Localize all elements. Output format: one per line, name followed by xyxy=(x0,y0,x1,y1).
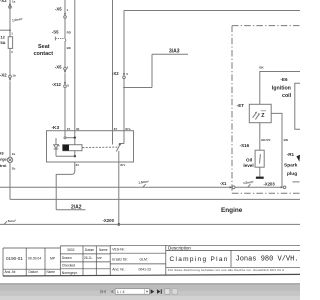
svg-text:Name: Name xyxy=(99,248,108,252)
svg-text:Drawn: Drawn xyxy=(62,256,72,260)
svg-text:2/A2: 2/A2 xyxy=(71,205,82,211)
svg-text:Normgepr.: Normgepr. xyxy=(62,271,78,275)
svg-text:-S16: -S16 xyxy=(240,143,250,148)
svg-text:-X2: -X2 xyxy=(0,73,7,78)
wire relay pin 87 feed from top xyxy=(112,0,114,145)
last page button xyxy=(157,289,162,294)
wire 87a net vertical upper xyxy=(123,11,125,74)
previous page button xyxy=(110,290,113,294)
first page button xyxy=(100,290,106,294)
svg-text:control: control xyxy=(0,163,6,168)
wire ET feed with corner to right edge xyxy=(260,72,300,105)
svg-text:MP: MP xyxy=(50,257,56,261)
dashed actuator link coil to contact xyxy=(83,146,118,149)
svg-text:contact: contact xyxy=(34,51,54,57)
svg-text:09.09.04: 09.09.04 xyxy=(28,257,41,261)
wire relay pin 30 feed from top xyxy=(74,0,76,138)
coil terminal circle pin15 xyxy=(64,137,66,139)
pin 2b xyxy=(12,166,16,170)
relay coil K3 xyxy=(63,145,82,151)
node junction to 3/A3 branch xyxy=(123,87,125,89)
wire connector to lamp xyxy=(9,81,11,157)
svg-text:-K3: -K3 xyxy=(52,125,60,130)
wire branch to left edge xyxy=(0,29,10,31)
wire lamp down to corner xyxy=(9,163,11,200)
svg-text:plug: plug xyxy=(287,171,297,177)
value label 1,5mm2 xyxy=(143,184,146,187)
connector -X1 xyxy=(220,181,227,186)
svg-text:-ET: -ET xyxy=(237,103,245,108)
svg-text:Seat: Seat xyxy=(38,44,50,50)
wire switch to connector xyxy=(64,41,66,67)
svg-text:Oil: Oil xyxy=(246,157,252,162)
oil level switch S16 xyxy=(240,143,250,148)
svg-text:0190-01: 0190-01 xyxy=(6,256,23,261)
svg-text:Jonas 980 V/VH.: Jonas 980 V/VH. xyxy=(236,255,299,263)
svg-text:-X5: -X5 xyxy=(55,64,62,69)
svg-text:31: 31 xyxy=(76,163,80,167)
svg-text:coil: coil xyxy=(282,93,292,99)
connector -X203 xyxy=(264,181,276,186)
junction xyxy=(9,29,11,31)
svg-text:87z: 87z xyxy=(120,163,125,167)
svg-text:0041-23: 0041-23 xyxy=(139,268,152,272)
wire coil top link xyxy=(66,137,75,139)
svg-text:Datum: Datum xyxy=(29,270,39,274)
contact blade 87/87a xyxy=(116,145,120,152)
wire colour BN xyxy=(284,138,288,142)
node -X200 xyxy=(103,218,115,223)
svg-text:15: 15 xyxy=(67,127,71,131)
wire coil bottom loop xyxy=(56,155,75,157)
relay K3 box xyxy=(47,131,134,162)
svg-text:BN: BN xyxy=(284,138,288,142)
node reference 2/A2 xyxy=(71,205,82,211)
svg-text:Spark: Spark xyxy=(284,162,298,168)
junction coil bottom xyxy=(74,155,76,157)
svg-text:Änd.-Nr.: Änd.-Nr. xyxy=(5,270,17,274)
pin 31 xyxy=(76,163,80,167)
wire fuse to connector xyxy=(9,48,11,75)
wire seat-contact column top xyxy=(64,0,66,13)
svg-text:-X1: -X1 xyxy=(220,181,227,186)
svg-text:5A: 5A xyxy=(0,40,5,45)
svg-text:Name: Name xyxy=(47,270,56,274)
svg-text:Datum: Datum xyxy=(85,248,95,252)
connector -X2 left pin 1b xyxy=(0,73,16,78)
svg-text:-R1: -R1 xyxy=(287,152,295,157)
svg-text:-E6: -E6 xyxy=(280,77,288,82)
wire S16 to ground xyxy=(259,167,261,177)
pin 1 xyxy=(11,32,13,36)
title block xyxy=(3,245,300,276)
node reference 3/A3 xyxy=(169,49,180,55)
svg-text:30: 30 xyxy=(76,127,80,131)
svg-text:MP: MP xyxy=(97,256,102,260)
svg-text:BK/YE: BK/YE xyxy=(261,138,270,142)
wire 87a hook into contact xyxy=(120,143,124,146)
wire connector to relay pin 15 xyxy=(64,88,66,137)
next page button xyxy=(151,289,155,294)
engine boundary dash-dot box xyxy=(232,26,300,194)
svg-text:-X203: -X203 xyxy=(264,181,276,186)
wire coil top lead xyxy=(74,138,76,145)
page layout icons xyxy=(165,289,170,294)
wire 87a net vertical lower xyxy=(123,79,125,144)
pin 87z xyxy=(120,163,125,167)
svg-text:1 / 4: 1 / 4 xyxy=(117,289,126,294)
wire colour RD xyxy=(67,30,72,34)
pin 30 xyxy=(76,127,80,131)
svg-text:Für diese Zeichnung behalten w: Für diese Zeichnung behalten wir uns all… xyxy=(168,268,284,272)
svg-text:87: 87 xyxy=(114,127,118,131)
switch S5 seat contact xyxy=(52,29,59,34)
svg-text:-X200: -X200 xyxy=(103,218,115,223)
svg-text:6mm²: 6mm² xyxy=(8,219,16,223)
ignition trigger unit ET xyxy=(249,104,271,122)
page number input 1/4 xyxy=(115,289,149,295)
spark plug R1 (clipped at right edge) xyxy=(284,152,298,177)
wire branch to reference 3/A3 xyxy=(124,87,152,89)
label Seat contact xyxy=(34,44,54,57)
wire battery feed vertical left column xyxy=(9,0,11,37)
svg-text:Engine: Engine xyxy=(221,207,243,214)
svg-text:Clamping Plan: Clamping Plan xyxy=(170,256,229,263)
connector -X5 pin 1 xyxy=(55,6,69,12)
svg-text:-X12: -X12 xyxy=(52,82,62,87)
svg-text:level: level xyxy=(243,163,253,168)
label Engine xyxy=(221,207,243,214)
wire to switch xyxy=(64,18,66,37)
wire 87z output down to X200 bus xyxy=(118,151,120,225)
svg-text:Charge: Charge xyxy=(0,157,8,162)
svg-text:-S5: -S5 xyxy=(52,29,59,34)
svg-text:2b: 2b xyxy=(12,166,16,170)
svg-text:Description: Description xyxy=(168,245,191,250)
value label 1,5mm2 xyxy=(12,17,23,23)
suppressor diode across coil xyxy=(55,138,57,145)
connector -X2 pin 9 xyxy=(112,71,128,76)
pin 87a xyxy=(125,127,130,131)
svg-text:Ersatz für:: Ersatz für: xyxy=(112,258,128,262)
fuse F12 5A xyxy=(8,37,12,49)
value label 1,5mm2 xyxy=(248,184,251,187)
pin 15 xyxy=(67,127,71,131)
connector -X12 pin 6 xyxy=(52,82,69,87)
wire bus -X203 xyxy=(235,186,281,188)
wire ET output bottom xyxy=(259,123,261,151)
svg-text:3002: 3002 xyxy=(67,248,75,252)
junction coil top xyxy=(74,137,76,139)
pin 2 xyxy=(11,50,13,54)
svg-text:2a: 2a xyxy=(12,152,16,156)
svg-text:87a: 87a xyxy=(125,127,130,131)
lamp H3 charge control (labels clipped at left edge) xyxy=(0,151,8,168)
ignition coil E6 (clipped at right edge) xyxy=(272,77,292,99)
svg-text:Checked: Checked xyxy=(62,264,75,268)
connector -X5 pin 2 xyxy=(55,64,69,69)
svg-text:3/A3: 3/A3 xyxy=(169,49,180,55)
pin 87 xyxy=(114,127,118,131)
svg-text:-X2: -X2 xyxy=(112,71,119,76)
connector -X2 top (clipped at top edge) xyxy=(0,0,16,4)
viewer toolbar xyxy=(0,283,300,285)
wire colour BK xyxy=(67,46,72,50)
wire pin 31 to reference 2/A2 xyxy=(56,162,75,210)
junction on X200 bus xyxy=(118,223,121,226)
ground bar (engine ground) xyxy=(256,177,264,179)
svg-text:-X5: -X5 xyxy=(55,6,62,11)
pin 2a xyxy=(12,152,16,156)
svg-text:1b: 1b xyxy=(12,74,16,78)
wire ET output right to BN drop xyxy=(271,113,282,187)
svg-text:Ignition: Ignition xyxy=(272,85,291,91)
wire lamp horizontal to right edge xyxy=(10,198,300,200)
svg-text:26.11.: 26.11. xyxy=(84,256,93,260)
svg-text:-X2: -X2 xyxy=(0,0,7,3)
wire ground run to -X1 xyxy=(0,186,232,188)
wire 87a net horizontal top to right edge xyxy=(124,10,300,12)
svg-text:1a: 1a xyxy=(12,0,16,4)
svg-text:GLM:: GLM: xyxy=(140,258,148,262)
svg-text:Änd. Nr. :: Änd. Nr. : xyxy=(112,268,126,272)
wire ground bus -X200 6mm2 xyxy=(0,223,300,225)
wire between connectors xyxy=(64,73,66,82)
svg-text:VES-Nr. :: VES-Nr. : xyxy=(112,247,126,251)
wire coil bottom lead xyxy=(74,151,76,157)
wire colour BK xyxy=(259,66,264,70)
wire colour BK/YE xyxy=(261,138,270,142)
